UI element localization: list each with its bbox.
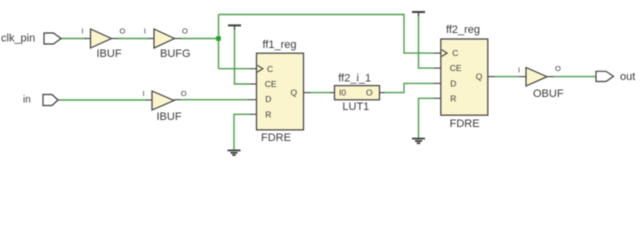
wire clock net vertical xyxy=(218,15,220,69)
pin C clock chevron ff1 xyxy=(257,65,263,72)
svg-text:CE: CE xyxy=(450,63,462,73)
svg-text:O: O xyxy=(181,89,187,98)
wire BUFG to junction xyxy=(180,38,219,40)
buffer OBUF U4 xyxy=(526,68,547,87)
ground GND1 xyxy=(228,149,241,151)
pin C clock chevron ff2 xyxy=(442,50,448,57)
flip-flop ff2_reg FDRE xyxy=(441,39,488,115)
svg-text:I: I xyxy=(144,27,146,36)
wire ff2 Q to OBUF xyxy=(494,76,520,78)
svg-text:C: C xyxy=(452,48,458,58)
power const1 T2 xyxy=(412,11,425,13)
svg-text:R: R xyxy=(450,93,456,103)
svg-text:BUFG: BUFG xyxy=(160,48,191,60)
svg-text:O: O xyxy=(366,88,373,98)
svg-text:O: O xyxy=(182,27,188,36)
wire IBUF to ff1 D xyxy=(180,99,249,101)
svg-text:O: O xyxy=(120,27,126,36)
port in xyxy=(43,95,58,106)
ground GND2 xyxy=(412,138,425,140)
svg-text:D: D xyxy=(265,94,271,104)
svg-text:ff2_i_1: ff2_i_1 xyxy=(338,73,371,85)
svg-text:Q: Q xyxy=(291,87,298,97)
wire OBUF to out port xyxy=(553,76,596,78)
wire ff1 Q to LUT1 xyxy=(310,92,332,94)
svg-text:clk_pin: clk_pin xyxy=(1,33,35,45)
svg-text:I: I xyxy=(518,66,520,75)
wire ff1 R to ground xyxy=(234,114,250,150)
svg-text:ff2_reg: ff2_reg xyxy=(446,24,480,36)
svg-text:I: I xyxy=(143,89,145,98)
svg-text:ff1_reg: ff1_reg xyxy=(263,39,297,51)
svg-text:LUT1: LUT1 xyxy=(342,101,369,113)
wire T2 to ff2 CE xyxy=(419,16,435,68)
svg-text:FDRE: FDRE xyxy=(261,132,291,144)
wire clock net top horizontal xyxy=(219,15,435,54)
svg-text:CE: CE xyxy=(265,79,277,89)
wire IBUF to BUFG xyxy=(117,38,149,40)
svg-text:IBUF: IBUF xyxy=(157,111,182,123)
buffer BUFG U2 xyxy=(154,29,175,48)
wire T1 to ff1 CE xyxy=(235,30,251,85)
buffer IBUF U1 xyxy=(91,29,112,48)
svg-text:out: out xyxy=(620,71,635,83)
svg-text:I0: I0 xyxy=(339,88,346,98)
wire LUT1 O to ff2 D xyxy=(384,83,434,92)
svg-text:I: I xyxy=(82,27,84,36)
power const1 T1 xyxy=(228,24,241,26)
wire in port to IBUF xyxy=(58,99,147,101)
buffer IBUF U3 xyxy=(152,91,174,110)
svg-text:FDRE: FDRE xyxy=(450,118,480,130)
svg-text:D: D xyxy=(450,79,456,89)
svg-text:Q: Q xyxy=(476,71,483,81)
svg-text:R: R xyxy=(265,109,271,119)
svg-text:IBUF: IBUF xyxy=(97,48,122,60)
port clk_pin xyxy=(44,33,61,44)
wire clk_pin to IBUF xyxy=(61,38,86,40)
flip-flop ff1_reg FDRE xyxy=(257,53,304,130)
node clock junction xyxy=(216,36,221,41)
svg-text:C: C xyxy=(267,64,273,74)
port out xyxy=(596,71,614,81)
wire clock to ff1 C xyxy=(219,68,251,70)
wire ff2 R to ground xyxy=(419,98,435,138)
svg-text:O: O xyxy=(555,64,561,73)
svg-text:OBUF: OBUF xyxy=(533,88,564,100)
lut ff2_i_1 LUT1 xyxy=(335,86,380,100)
svg-text:in: in xyxy=(23,95,31,106)
